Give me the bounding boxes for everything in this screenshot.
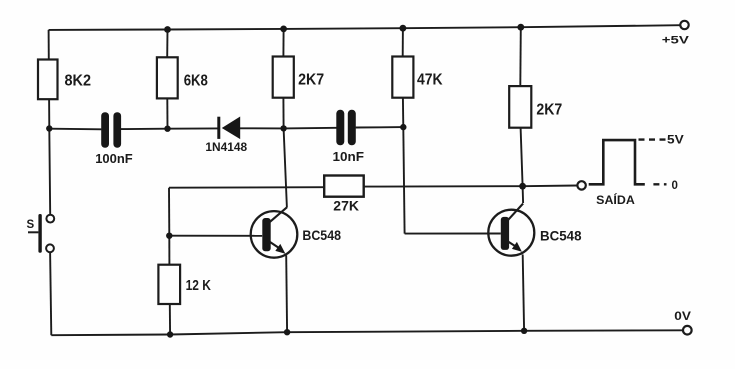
- wire 6K8 bottom lead: [166, 98, 168, 128]
- wire 12K bottom lead: [169, 304, 171, 335]
- svg-text:2K7: 2K7: [536, 101, 562, 118]
- junction dot 12K bottom rail: [167, 331, 173, 337]
- wire 6K8 top lead: [166, 30, 168, 58]
- svg-text:1N4148: 1N4148: [205, 142, 247, 154]
- wire diode right lead: [240, 127, 284, 129]
- junction dot output node: [519, 183, 526, 190]
- svg-text:SAÍDA: SAÍDA: [596, 194, 635, 207]
- wire left rail lower (switch to bottom corner): [50, 252, 51, 335]
- svg-text:0: 0: [672, 180, 678, 192]
- wire 2K7 second top lead: [519, 27, 522, 86]
- svg-text:S: S: [27, 219, 35, 231]
- junction dot Q2 emitter bottom rail: [521, 328, 527, 334]
- wire 27K left lead: [169, 186, 324, 189]
- wire bottom 0V rail: [51, 330, 683, 335]
- svg-text:2K7: 2K7: [298, 72, 324, 89]
- wire Q1 base horizontal: [169, 235, 262, 237]
- svg-text:8K2: 8K2: [65, 72, 92, 89]
- junction dot 2K7 first top rail: [280, 26, 287, 33]
- wire 100nF left lead: [49, 128, 101, 131]
- wire Q2 base horizontal: [405, 233, 501, 235]
- diode 1N4148: [205, 117, 247, 155]
- resistor 2K7 first: [273, 57, 324, 98]
- wire Q1 emitter vertical: [285, 255, 288, 332]
- resistor 8K2: [38, 60, 91, 100]
- svg-text:10nF: 10nF: [333, 149, 365, 164]
- wire 27K left node vertical: [168, 188, 170, 236]
- resistor 2K7 second: [509, 86, 562, 128]
- resistor 6K8: [157, 57, 208, 98]
- svg-text:0V: 0V: [674, 311, 691, 323]
- wire left rail upper (top corner to 8K2): [48, 30, 50, 60]
- junction dot Q1 base / 12K node: [166, 233, 172, 239]
- wire 47K column down to Q2 base corner: [403, 127, 404, 234]
- wire 2K7 second bottom lead to output node: [521, 128, 523, 187]
- svg-text:+5V: +5V: [662, 35, 690, 47]
- svg-text:BC548: BC548: [302, 228, 341, 243]
- resistor 12K: [158, 265, 211, 304]
- terminal 0V: [674, 311, 691, 335]
- waveform 0 dashed level: [653, 180, 678, 192]
- junction dot 2K7 second top rail: [517, 24, 524, 31]
- wire left rail (8K2 to junction A to switch): [49, 99, 50, 214]
- wire 47K top lead: [402, 28, 404, 56]
- junction dot node A (left rail / 100nF): [46, 125, 52, 131]
- transistor Q1 BC548: [251, 207, 342, 257]
- resistor 47K: [392, 57, 443, 98]
- pushbutton switch S: [27, 214, 55, 253]
- wire 27K right lead: [364, 185, 523, 187]
- svg-text:27K: 27K: [333, 199, 359, 214]
- wire 100nF right lead: [121, 128, 168, 130]
- junction dot 2K7 first bottom node: [280, 125, 286, 131]
- waveform 5V dashed level: [639, 132, 684, 146]
- svg-text:6K8: 6K8: [184, 72, 209, 89]
- wire top +5V rail: [49, 25, 681, 30]
- capacitor 100nF: [95, 112, 133, 166]
- svg-text:12 K: 12 K: [186, 278, 212, 294]
- wire 12K top lead: [168, 236, 170, 265]
- svg-text:47K: 47K: [417, 71, 443, 88]
- wire 10nF right lead: [356, 126, 404, 128]
- wire 2K7 first bottom lead: [282, 98, 284, 129]
- wire 2K7 first top lead: [282, 29, 284, 57]
- junction dot 6K8 bottom / diode node: [164, 126, 170, 132]
- wire Q1 collector vertical: [284, 128, 287, 207]
- svg-text:5V: 5V: [667, 132, 684, 146]
- junction dot 47K bottom / 10nF node: [400, 124, 406, 130]
- wire Q2 collector vertical: [522, 186, 525, 203]
- wire 47K bottom lead: [402, 98, 404, 127]
- wire output lead to terminal: [523, 185, 578, 188]
- svg-text:BC548: BC548: [540, 228, 582, 243]
- junction dot 6K8 top rail: [164, 26, 171, 33]
- transistor Q2 BC548: [488, 204, 582, 256]
- output waveform pulse: [589, 140, 645, 184]
- wire 10nF left lead: [284, 127, 337, 130]
- terminal output SAIDA: [577, 181, 634, 207]
- resistor 27K: [324, 176, 364, 214]
- junction dot Q1 emitter bottom rail: [284, 329, 290, 335]
- svg-text:100nF: 100nF: [95, 151, 133, 166]
- capacitor 10nF: [333, 110, 365, 164]
- wire Q2 emitter vertical: [523, 255, 524, 331]
- terminal +5V: [662, 21, 690, 47]
- wire diode left lead: [168, 127, 219, 129]
- junction dot 47K top rail: [400, 25, 407, 32]
